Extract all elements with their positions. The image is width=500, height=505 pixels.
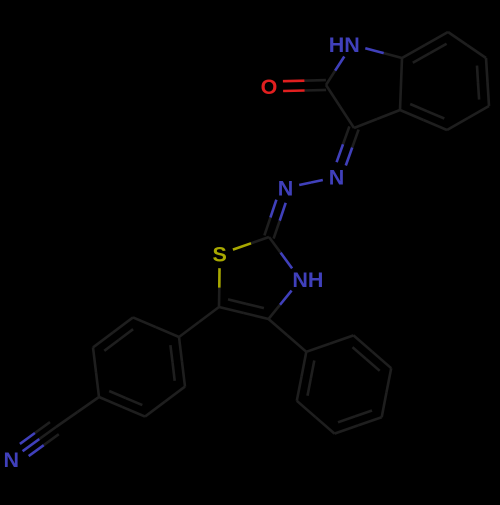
svg-text:NH: NH [292, 268, 323, 292]
svg-text:N: N [278, 177, 294, 201]
svg-text:HN: HN [329, 33, 360, 57]
svg-text:O: O [261, 75, 278, 99]
svg-text:S: S [213, 243, 227, 267]
svg-text:N: N [4, 448, 20, 472]
svg-text:N: N [329, 166, 345, 190]
